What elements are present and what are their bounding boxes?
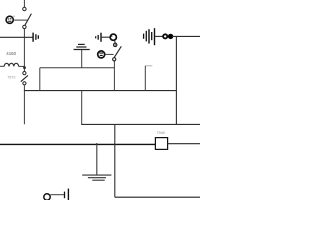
switch S1 xyxy=(23,7,32,28)
battery B3 xyxy=(144,28,155,45)
circle C3 xyxy=(44,194,50,200)
inductor L1 xyxy=(0,63,26,69)
breaker box 7940 xyxy=(155,138,167,150)
svg-text:4160: 4160 xyxy=(6,51,16,56)
wire xyxy=(39,68,41,91)
wire xyxy=(175,36,177,124)
wire xyxy=(81,91,83,125)
wire xyxy=(105,53,114,55)
wire xyxy=(13,19,27,21)
svg-text:7940: 7940 xyxy=(157,131,165,135)
ground G2 xyxy=(82,175,111,180)
svg-text:7570: 7570 xyxy=(7,76,15,80)
battery B2 xyxy=(96,33,101,42)
wire xyxy=(113,61,115,91)
wire xyxy=(23,29,25,72)
battery B1 xyxy=(33,33,38,42)
battery B4 xyxy=(65,189,69,200)
ground stem xyxy=(96,143,98,175)
instrument C1 xyxy=(110,34,116,43)
meter M1 xyxy=(6,16,14,24)
wire xyxy=(102,36,110,38)
meter M2 xyxy=(98,51,105,58)
wire xyxy=(23,0,25,7)
main bus xyxy=(0,143,155,145)
switch S2 xyxy=(21,72,28,85)
wire stub xyxy=(145,65,152,67)
wire xyxy=(172,35,200,37)
ground G1 xyxy=(74,44,90,67)
bus wire xyxy=(24,90,177,92)
bottom bus wire xyxy=(115,196,200,198)
switch S3 xyxy=(113,46,122,61)
junction dot xyxy=(168,34,173,39)
wire xyxy=(23,91,25,125)
wire xyxy=(155,35,163,37)
wire xyxy=(23,85,25,91)
wire xyxy=(40,67,115,69)
wire xyxy=(0,36,33,38)
wire xyxy=(114,124,116,197)
ring C2 xyxy=(163,34,167,38)
wire xyxy=(168,143,200,145)
wire xyxy=(50,194,64,196)
wire xyxy=(81,123,200,125)
wire xyxy=(144,66,146,91)
contact circle xyxy=(114,43,117,46)
